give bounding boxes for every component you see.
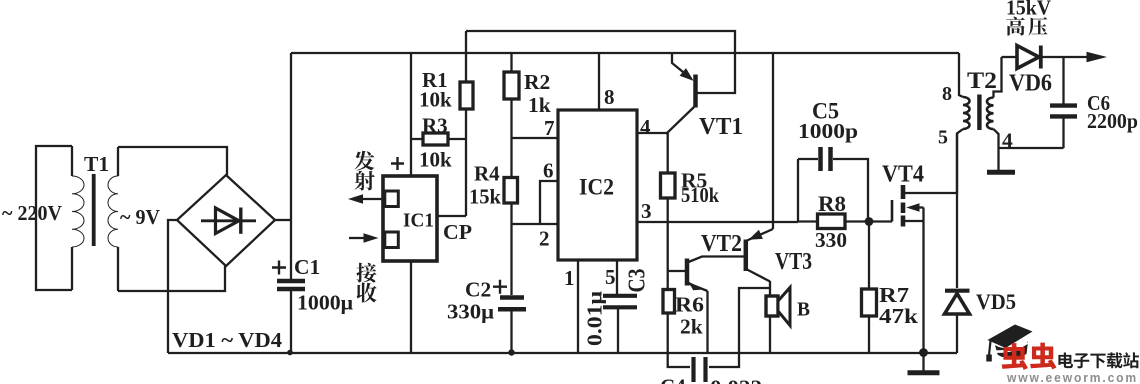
resistor R6 2k xyxy=(663,289,704,339)
wire +V top rail xyxy=(291,52,959,54)
svg-text:3: 3 xyxy=(641,199,652,223)
wire secondary top to bridge xyxy=(118,147,227,175)
timer IC2 xyxy=(558,110,637,260)
svg-text:www.eeworm.com: www.eeworm.com xyxy=(1006,370,1138,384)
wire IC1 CP output xyxy=(437,215,466,217)
wire C1 to ground rail xyxy=(290,291,292,353)
transistor VT2 xyxy=(668,222,744,291)
svg-text:C1: C1 xyxy=(294,255,320,279)
wire HV output arrow xyxy=(1043,52,1108,63)
wire IC2 pin 7 xyxy=(512,116,559,140)
svg-text:VD1 ~ VD4: VD1 ~ VD4 xyxy=(172,328,283,352)
svg-text:C3: C3 xyxy=(625,269,651,293)
wire IC2 pin 1 to ground xyxy=(564,260,578,353)
wire IC2 pin 2 xyxy=(512,224,559,251)
svg-text:8: 8 xyxy=(942,83,952,105)
resistor R5 510k xyxy=(661,133,720,222)
wire IC2 pin 3 xyxy=(637,199,798,223)
ground symbol main xyxy=(908,353,940,373)
svg-text:VT1: VT1 xyxy=(699,113,743,140)
svg-text:2200p: 2200p xyxy=(1087,109,1138,133)
wire VT3 emitter to rail xyxy=(772,53,774,229)
svg-text:0.01μ: 0.01μ xyxy=(583,291,607,346)
svg-text:0.022: 0.022 xyxy=(710,376,762,384)
transistor VT1 xyxy=(466,31,743,140)
svg-text:VD6: VD6 xyxy=(1009,71,1052,97)
wire VT4 source to ground xyxy=(922,208,924,354)
label receive 接收 with arrow xyxy=(349,233,379,302)
wire VT2 emitter to ground xyxy=(706,291,708,353)
wire IC2 pin 4 xyxy=(637,115,667,139)
svg-text:VT4: VT4 xyxy=(882,161,924,188)
mosfet VT4 xyxy=(882,161,957,227)
wire bridge + output lead xyxy=(275,219,291,221)
bridge rectifier VD1~VD4 xyxy=(177,175,275,266)
svg-text:R8: R8 xyxy=(818,191,846,216)
transformer T1 xyxy=(36,146,118,291)
resistor R2 1k xyxy=(504,53,551,117)
svg-text:8: 8 xyxy=(604,85,615,109)
svg-text:10k: 10k xyxy=(419,148,452,172)
svg-text:5: 5 xyxy=(605,265,616,289)
svg-text:2: 2 xyxy=(539,227,550,251)
svg-text:15kV: 15kV xyxy=(1006,0,1051,20)
svg-text:R2: R2 xyxy=(524,70,550,94)
resistor R3 10k xyxy=(411,114,466,172)
resistor R4 15k xyxy=(469,162,518,209)
wire IC2 pin 6 xyxy=(540,159,558,225)
transistor VT3 xyxy=(746,229,812,282)
svg-text:2k: 2k xyxy=(680,315,703,339)
label transmit 发射 with arrow xyxy=(348,151,383,204)
watermark logo cap xyxy=(986,325,1032,362)
svg-text:IC1: IC1 xyxy=(403,210,434,232)
wire IC1 supply from rail xyxy=(410,53,412,176)
capacitor C5 1000p xyxy=(798,99,868,223)
svg-text:1000μ: 1000μ xyxy=(297,291,353,315)
wire T2 secondary bottom xyxy=(999,147,1064,149)
svg-text:5: 5 xyxy=(938,127,948,149)
capacitor C3 0.01u xyxy=(583,269,651,354)
svg-text:510k: 510k xyxy=(681,183,719,207)
label 15kV 高压 xyxy=(1006,0,1051,36)
resistor R8 330 xyxy=(798,191,892,252)
capacitor C1 xyxy=(272,255,353,315)
wire R2 to R4 column xyxy=(510,99,512,176)
svg-text:47k: 47k xyxy=(879,304,918,328)
wire ground bottom rail xyxy=(168,352,957,354)
IC1 ultrasonic transmit/receive module xyxy=(383,157,437,261)
junction gate node xyxy=(865,217,874,226)
ground symbol T2 xyxy=(987,148,1015,172)
svg-text:4: 4 xyxy=(640,115,651,139)
junction C1 ground xyxy=(287,350,293,356)
svg-text:CP: CP xyxy=(443,220,472,244)
svg-text:~ 220V: ~ 220V xyxy=(2,201,62,225)
speaker B xyxy=(766,281,810,353)
svg-text:7: 7 xyxy=(544,116,555,140)
svg-text:6: 6 xyxy=(543,159,554,183)
capacitor C6 2200p xyxy=(1050,57,1138,148)
svg-text:1k: 1k xyxy=(528,93,551,117)
watermark 电子下载站 xyxy=(1058,352,1139,368)
svg-text:VT3: VT3 xyxy=(775,248,812,275)
svg-text:~ 9V: ~ 9V xyxy=(120,205,160,229)
svg-text:T1: T1 xyxy=(84,152,109,176)
svg-text:1: 1 xyxy=(564,266,575,290)
svg-text:B: B xyxy=(797,300,810,321)
svg-text:330μ: 330μ xyxy=(447,300,494,324)
svg-text:R6: R6 xyxy=(675,293,704,317)
diode VD5 xyxy=(945,134,1017,353)
watermark logo 虫虫 xyxy=(1002,343,1057,370)
wire IC2 pin 8 to rail xyxy=(599,53,615,110)
svg-text:IC2: IC2 xyxy=(579,175,614,200)
wire bridge - to ground rail xyxy=(168,220,177,353)
wire R4 to C2 xyxy=(510,204,512,295)
capacitor C4 0.022 xyxy=(660,288,770,384)
svg-text:C4: C4 xyxy=(660,375,686,384)
svg-text:C2: C2 xyxy=(465,278,491,302)
svg-text:15k: 15k xyxy=(469,185,501,209)
wire IC2 pin 5 to C3 xyxy=(605,260,617,294)
resistor R7 47k xyxy=(862,222,919,354)
svg-text:10k: 10k xyxy=(419,88,452,112)
capacitor C2 330u xyxy=(447,278,526,356)
svg-text:VD5: VD5 xyxy=(976,289,1016,314)
wire secondary bottom to bridge xyxy=(118,266,225,291)
svg-text:VT2: VT2 xyxy=(701,230,742,257)
svg-text:T2: T2 xyxy=(967,68,997,94)
transformer T2 xyxy=(938,53,1013,193)
svg-text:R4: R4 xyxy=(474,162,500,186)
wire IC1 to ground rail xyxy=(410,261,412,353)
svg-text:R3: R3 xyxy=(422,114,448,138)
svg-text:330: 330 xyxy=(815,228,847,252)
junction source-ground xyxy=(919,348,928,357)
svg-text:1000p: 1000p xyxy=(798,119,858,143)
wire rectifier output to C1 rail xyxy=(290,53,292,279)
resistor R1 10k xyxy=(419,31,473,216)
diode VD6 xyxy=(1002,46,1053,97)
